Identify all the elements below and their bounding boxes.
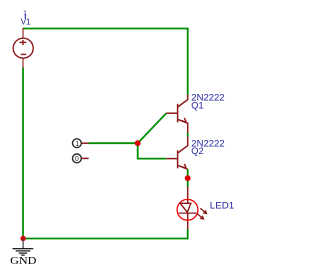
wire junction to Q2 base <box>138 143 167 158</box>
svg-text:0: 0 <box>75 156 79 163</box>
wire junction to Q1 base (diagonal) <box>138 113 167 143</box>
wire Q1 emitter to Q2 collector <box>187 133 189 137</box>
LED1 emission arrows <box>197 208 207 220</box>
svg-text:1: 1 <box>75 141 79 148</box>
transistor Q2 <box>166 137 187 170</box>
wire terminal 1 to junction <box>89 142 138 144</box>
ground <box>13 239 34 256</box>
LED LED1 <box>177 187 198 230</box>
wire top rail <box>23 28 188 30</box>
node 1 marker (arrow above V1) <box>23 10 27 19</box>
wire right vertical to Q1 collector <box>187 28 189 95</box>
transistor Q1 <box>166 95 187 133</box>
wire LED cathode to bottom rail <box>187 229 189 239</box>
wire Q2 emitter to LED anode <box>187 169 189 187</box>
wire bottom rail <box>23 238 188 240</box>
wire V1 to ground rail <box>22 68 24 240</box>
junction LED node <box>185 175 191 181</box>
terminal 0 <box>73 154 89 163</box>
terminal 1 <box>73 139 89 148</box>
svg-text:GND: GND <box>10 255 36 267</box>
svg-text:LED1: LED1 <box>210 200 234 210</box>
junction ground node <box>20 236 25 241</box>
svg-text:V1: V1 <box>21 18 31 27</box>
svg-text:Q2: Q2 <box>191 146 203 156</box>
voltage source V1 <box>13 28 33 68</box>
svg-text:Q1: Q1 <box>191 100 203 110</box>
junction input node <box>135 140 141 146</box>
